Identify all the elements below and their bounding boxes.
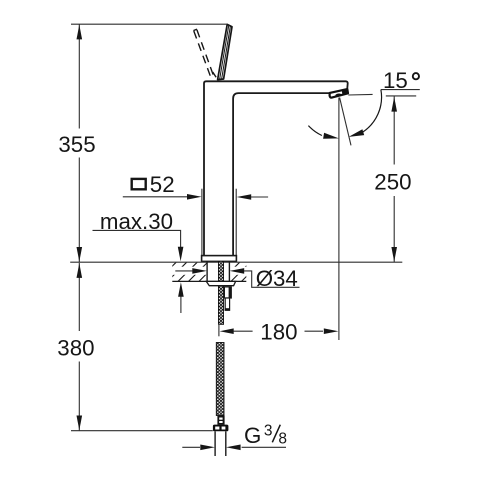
svg-text:180: 180 bbox=[260, 319, 297, 344]
mounting screw / nut bbox=[224, 287, 231, 310]
hose connector nut bbox=[213, 425, 229, 432]
threaded stud bbox=[218, 261, 223, 324]
dimension 250 line bbox=[393, 97, 395, 263]
aerator outlet line bbox=[348, 93, 372, 96]
extension line from base plate left corner bbox=[201, 189, 203, 256]
dimension 355 line bbox=[78, 24, 80, 262]
dimension 180 line bbox=[220, 328, 234, 334]
handle lever solid bbox=[218, 24, 232, 79]
faucet body outline bbox=[204, 81, 348, 255]
extension line from base plate right corner bbox=[235, 189, 237, 256]
swing arc left bbox=[308, 126, 322, 136]
dimension 380 line bbox=[78, 263, 80, 431]
horizontal reference line B bbox=[386, 95, 416, 97]
label square52 symbol bbox=[132, 179, 146, 189]
shank through counter bbox=[206, 261, 208, 281]
flexible hose braided bbox=[216, 343, 224, 416]
counter top line bbox=[70, 261, 402, 263]
svg-text:250: 250 bbox=[374, 170, 411, 195]
vertical extension from spout tip bbox=[338, 98, 340, 341]
base plate bbox=[202, 256, 237, 262]
svg-text:8: 8 bbox=[278, 431, 287, 448]
max30 leader bbox=[93, 230, 181, 248]
top extension line bbox=[71, 23, 227, 25]
svg-text:G: G bbox=[244, 423, 261, 448]
dimension 52 line right bbox=[251, 196, 268, 198]
dimension 52 line left bbox=[123, 196, 188, 198]
counter bottom line bbox=[172, 280, 246, 282]
dimension G3/8 arrows bbox=[182, 446, 200, 448]
hose collar bbox=[217, 416, 224, 425]
bottom reference line bbox=[71, 430, 213, 432]
hatch interruption channel for dim line bbox=[173, 267, 207, 275]
max30 lower arrow bbox=[180, 297, 182, 314]
counter hatch right block bbox=[221, 262, 261, 281]
counter hatch left block bbox=[157, 262, 218, 281]
aerator at spout tip bbox=[330, 89, 348, 98]
svg-text:3: 3 bbox=[264, 422, 273, 439]
centerline tick bbox=[218, 325, 220, 336]
svg-text:52: 52 bbox=[150, 172, 175, 197]
svg-text:355: 355 bbox=[58, 132, 95, 157]
swing arc right bbox=[362, 90, 382, 133]
svg-text:Ø34: Ø34 bbox=[256, 266, 298, 291]
handle lever dashed (alternate position) bbox=[193, 29, 216, 77]
svg-text:380: 380 bbox=[57, 336, 94, 361]
15deg underline A bbox=[381, 89, 420, 91]
spout underside inner L bbox=[233, 93, 330, 255]
dimension diameter 34 bbox=[175, 270, 192, 272]
washer under counter bbox=[206, 281, 235, 285]
15deg tilted line bbox=[340, 98, 351, 146]
connection tube G3/8 bbox=[214, 431, 216, 456]
